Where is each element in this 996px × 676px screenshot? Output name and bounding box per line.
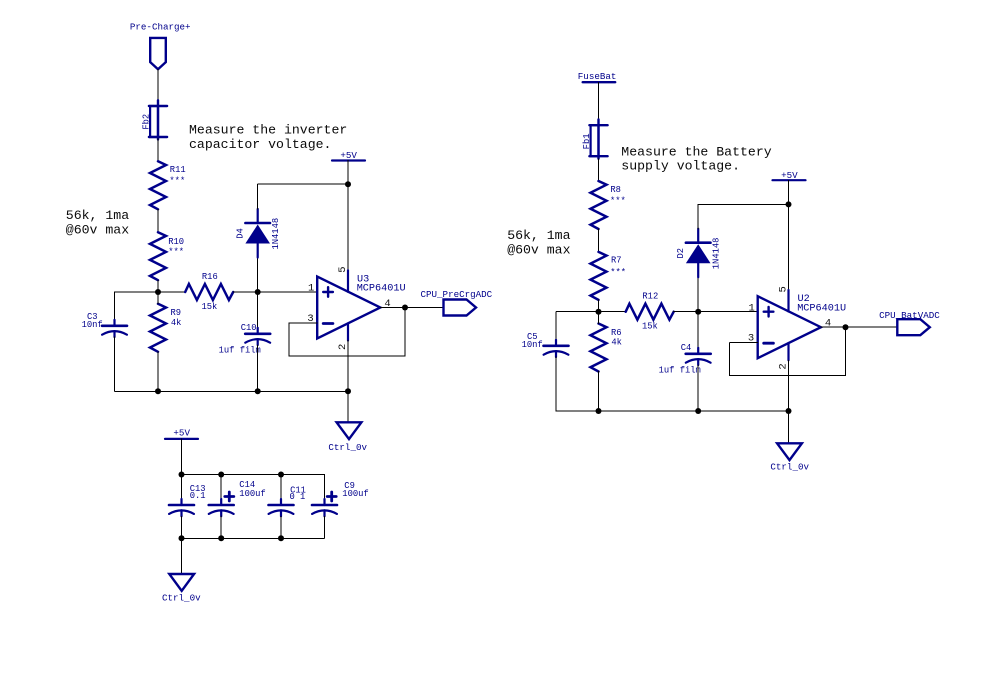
svg-text:@60v max: @60v max xyxy=(66,222,129,237)
capacitor C10 xyxy=(245,328,270,345)
wire C9 drop xyxy=(324,475,326,500)
wire pin3 feedback left xyxy=(289,322,317,324)
wire C9 bottom xyxy=(324,516,326,538)
wire C10 branch bottom xyxy=(257,345,259,391)
svg-text:1N4148: 1N4148 xyxy=(711,238,721,270)
capacitor C11 xyxy=(269,499,294,516)
wire pin3 feedback left B xyxy=(730,342,758,344)
wire feedback down B xyxy=(729,343,731,376)
svg-text:1: 1 xyxy=(749,302,755,314)
wire pin2 down B xyxy=(788,360,790,411)
wire port to fuse xyxy=(157,69,159,100)
svg-text:10nf: 10nf xyxy=(82,320,103,330)
wire pin2 down xyxy=(347,341,349,392)
wire pin5 vertical xyxy=(347,184,349,270)
svg-text:CPU_BatVADC: CPU_BatVADC xyxy=(879,310,940,321)
junction rail at C10 xyxy=(255,388,261,394)
svg-text:R6: R6 xyxy=(611,328,622,338)
wire C13 bottom xyxy=(181,516,183,538)
junction rail at pin2 B xyxy=(786,408,792,414)
capacitor C4 xyxy=(686,348,711,365)
wire R8 to R7 xyxy=(598,229,600,252)
wire node row right segment to opamp pin1 xyxy=(233,291,317,293)
svg-text:1uf film: 1uf film xyxy=(219,345,261,355)
capacitor C5 xyxy=(544,340,569,357)
wire bottom rail A xyxy=(115,390,349,392)
junction node B at C10/D4 xyxy=(255,289,261,295)
wire node row left segment B xyxy=(556,311,626,313)
svg-text:+5V: +5V xyxy=(173,427,190,438)
svg-text:Measure the Battery: Measure the Battery xyxy=(621,145,771,160)
svg-text:CPU_PreCrgADC: CPU_PreCrgADC xyxy=(421,289,493,300)
resistor R16 xyxy=(185,284,233,300)
wire pin5 vertical B xyxy=(788,204,790,290)
junction top rail C14 xyxy=(218,472,224,478)
svg-text:capacitor voltage.: capacitor voltage. xyxy=(189,137,331,152)
wire feedback up B xyxy=(845,327,847,376)
wire feedback bottom xyxy=(289,355,405,357)
svg-text:4k: 4k xyxy=(171,318,182,328)
wire node row left segment xyxy=(115,291,186,293)
capacitor C14 xyxy=(209,499,234,516)
svg-text:MCP6401U: MCP6401U xyxy=(357,284,406,295)
resistor R12 xyxy=(626,304,674,320)
wire cap bank top rail xyxy=(182,474,325,476)
wire feedback down xyxy=(288,323,290,356)
svg-text:Ctrl_0v: Ctrl_0v xyxy=(162,592,201,603)
svg-text:2: 2 xyxy=(778,363,790,369)
svg-text:100uf: 100uf xyxy=(239,489,265,499)
svg-text:2: 2 xyxy=(337,344,349,350)
svg-text:Pre-Charge+: Pre-Charge+ xyxy=(130,22,191,33)
svg-text:Ctrl_0v: Ctrl_0v xyxy=(328,442,367,453)
svg-text:56k, 1ma: 56k, 1ma xyxy=(507,228,570,243)
junction bottom rail C11 xyxy=(278,535,284,541)
svg-text:1uf film: 1uf film xyxy=(659,365,701,375)
wire bottom rail B xyxy=(556,410,789,412)
wire C10 branch top xyxy=(257,292,259,328)
wire R10 to node A xyxy=(157,280,159,292)
wire feedback bottom B xyxy=(730,375,846,377)
svg-text:56k, 1ma: 56k, 1ma xyxy=(66,208,129,223)
svg-text:0 1: 0 1 xyxy=(290,492,306,502)
junction bottom rail C14 xyxy=(218,535,224,541)
junction node at R7/R6 xyxy=(596,309,602,315)
svg-text:***: *** xyxy=(169,176,185,186)
fuse Fb1 xyxy=(589,120,607,159)
svg-text:Fb2: Fb2 xyxy=(141,114,151,130)
svg-text:R12: R12 xyxy=(642,292,658,302)
junction +5V node B xyxy=(786,201,792,207)
wire C5 branch top xyxy=(555,312,557,340)
wire R6 to bottom rail xyxy=(598,372,600,412)
junction bottom rail C13 xyxy=(179,535,185,541)
wire feedback up xyxy=(404,308,406,357)
junction node A at R10/R9 xyxy=(155,289,161,295)
capacitor C3 xyxy=(102,320,127,337)
svg-text:C4: C4 xyxy=(681,343,692,353)
wire C11 bottom xyxy=(280,516,282,538)
ground A xyxy=(337,422,362,439)
junction top rail C11 xyxy=(278,472,284,478)
wire top horizontal to +5V B xyxy=(698,203,788,205)
svg-text:D4: D4 xyxy=(235,228,245,239)
resistor R7 xyxy=(591,252,607,300)
capacitor C9 xyxy=(312,499,337,516)
plus C14 xyxy=(225,492,234,501)
junction rail at R9 xyxy=(155,388,161,394)
svg-text:supply voltage.: supply voltage. xyxy=(621,159,740,174)
resistor R6 xyxy=(591,324,607,372)
wire D2 branch upper xyxy=(697,204,699,228)
svg-text:R7: R7 xyxy=(611,256,622,266)
wire +5V stem cap bank xyxy=(181,439,183,475)
wire D2 branch lower xyxy=(697,278,699,312)
svg-text:0.1: 0.1 xyxy=(190,491,206,501)
junction rail at pin2 xyxy=(345,388,351,394)
power +5V cap bank xyxy=(165,438,198,440)
wire cap bank bottom rail xyxy=(182,537,325,539)
ground cap bank xyxy=(169,574,194,591)
power +5V B xyxy=(773,179,806,181)
svg-text:15k: 15k xyxy=(202,302,218,312)
FuseBat label underline xyxy=(583,81,616,83)
svg-text:***: *** xyxy=(610,196,626,206)
diode D4 xyxy=(245,209,270,258)
svg-text:+5V: +5V xyxy=(781,170,798,181)
wire node row right segment B xyxy=(674,311,758,313)
wire D4 branch lower xyxy=(257,258,259,292)
svg-text:10nf: 10nf xyxy=(522,340,543,350)
wire C14 drop xyxy=(220,475,222,500)
wire fuse to R8 xyxy=(598,159,600,181)
port CPU_PreCrgADC xyxy=(444,300,477,316)
svg-text:+5V: +5V xyxy=(340,150,357,161)
wire output xyxy=(380,307,443,309)
svg-text:R10: R10 xyxy=(168,237,184,247)
svg-text:@60v max: @60v max xyxy=(507,243,570,258)
svg-text:5: 5 xyxy=(777,286,789,292)
svg-text:Fb1: Fb1 xyxy=(582,133,592,149)
svg-text:Ctrl_0v: Ctrl_0v xyxy=(770,461,809,472)
wire C11 drop xyxy=(280,475,282,500)
junction rail at C4 xyxy=(695,408,701,414)
svg-text:Measure the inverter: Measure the inverter xyxy=(189,123,347,138)
capacitor C13 xyxy=(169,499,194,516)
wire R9 to bottom rail xyxy=(157,352,159,392)
svg-text:FuseBat: FuseBat xyxy=(578,71,617,82)
svg-text:100uf: 100uf xyxy=(342,489,368,499)
svg-text:***: *** xyxy=(610,267,626,277)
svg-text:1N4148: 1N4148 xyxy=(271,218,281,250)
resistor R10 xyxy=(150,232,166,280)
svg-text:D2: D2 xyxy=(676,248,686,259)
power +5V A xyxy=(332,160,365,162)
wire FuseBat to fuse xyxy=(598,82,600,120)
svg-text:4k: 4k xyxy=(611,338,622,348)
op-amp U3 xyxy=(317,270,380,340)
svg-text:R16: R16 xyxy=(202,272,218,282)
svg-text:R9: R9 xyxy=(171,308,182,318)
wire gnd stem B xyxy=(788,411,790,443)
wire node to R9 xyxy=(157,292,159,304)
svg-text:***: *** xyxy=(168,247,184,257)
wire C13 drop xyxy=(181,475,183,500)
svg-text:R8: R8 xyxy=(610,185,621,195)
wire R11 to R10 xyxy=(157,209,159,232)
op-amp U2 xyxy=(758,290,821,360)
wire R7 to node xyxy=(598,300,600,312)
ground B xyxy=(777,443,802,460)
junction rail at R6 xyxy=(596,408,602,414)
svg-text:R11: R11 xyxy=(170,165,186,175)
junction top rail C13 xyxy=(179,472,185,478)
wire C3 branch top xyxy=(114,292,116,320)
wire C14 bottom xyxy=(220,516,222,538)
plus C9 xyxy=(327,492,336,501)
svg-text:1: 1 xyxy=(308,283,314,295)
resistor R8 xyxy=(591,181,607,229)
wire gnd stem A xyxy=(347,391,349,421)
svg-text:C10: C10 xyxy=(241,323,257,333)
wire output B xyxy=(821,326,897,328)
wire top horizontal to +5V xyxy=(258,183,348,185)
wire D4 branch upper xyxy=(257,184,259,209)
wire node to R6 xyxy=(598,312,600,324)
wire fuse to R11 xyxy=(157,139,159,161)
junction +5V node xyxy=(345,181,351,187)
junction output node B xyxy=(843,324,849,330)
svg-text:5: 5 xyxy=(337,266,349,272)
resistor R9 xyxy=(150,304,166,352)
wire C4 branch top xyxy=(697,312,699,348)
junction node at C4/D2 xyxy=(695,309,701,315)
wire +5V stem xyxy=(347,161,349,185)
svg-text:15k: 15k xyxy=(642,322,658,332)
diode D2 xyxy=(686,229,711,278)
svg-text:MCP6401U: MCP6401U xyxy=(797,303,846,314)
wire C5 branch bottom xyxy=(555,357,557,411)
junction output node xyxy=(402,305,408,311)
wire gnd stem cap bank xyxy=(181,538,183,574)
fuse Fb2 xyxy=(149,100,167,139)
port CPU_BatVADC xyxy=(897,319,930,335)
port Pre-Charge+ xyxy=(150,38,166,69)
resistor R11 xyxy=(150,161,166,209)
wire +5V stem B xyxy=(788,180,790,204)
wire C3 branch bottom xyxy=(114,337,116,391)
wire C4 branch bottom xyxy=(697,365,699,411)
